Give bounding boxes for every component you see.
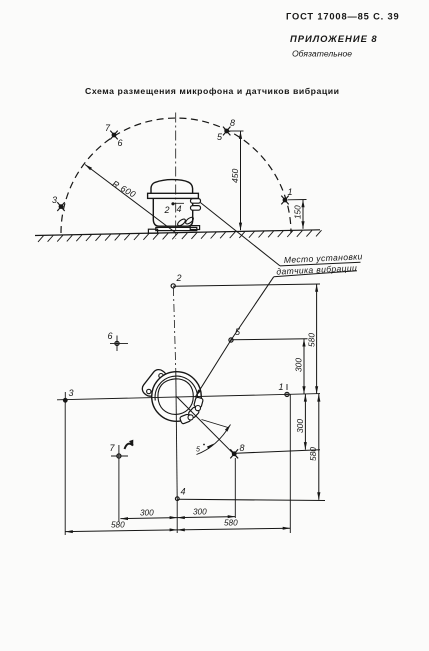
extension line from point 3 down bbox=[64, 404, 66, 536]
plan point 6 bbox=[108, 331, 129, 351]
rotation arc with arrows near point 8, label 5deg bbox=[196, 420, 231, 455]
svg-text:5: 5 bbox=[196, 447, 200, 454]
svg-text:300: 300 bbox=[193, 508, 207, 517]
dimension 450 bbox=[230, 131, 244, 230]
svg-text:300: 300 bbox=[294, 358, 304, 372]
vertical centerline of hemisphere/compressor bbox=[175, 113, 177, 240]
header: ПРИЛОЖЕНИЕ 8 bbox=[290, 33, 378, 44]
compressor center mark, labels 2 and 4 bbox=[164, 202, 185, 215]
svg-text:1: 1 bbox=[288, 187, 293, 197]
dimension 300 (lower right inner) bbox=[295, 394, 307, 450]
compressor plan: inner shell outline bbox=[158, 379, 193, 415]
plan point 4 bbox=[175, 487, 325, 501]
svg-text:4: 4 bbox=[177, 204, 182, 214]
ground line with hatching bbox=[35, 230, 322, 242]
dimension 150 bbox=[288, 200, 307, 229]
plan point 7 with rotation arrow bbox=[110, 440, 134, 467]
svg-text:580: 580 bbox=[308, 447, 318, 461]
plan point 3 bbox=[63, 388, 74, 404]
plan point 5 bbox=[229, 327, 308, 342]
plan horizontal centerline bbox=[57, 394, 320, 400]
mic points 8/5 (upper-right, on arc) bbox=[217, 118, 235, 142]
compressor discharge tubes (right side) bbox=[191, 199, 201, 211]
plan point 2 bbox=[171, 273, 320, 288]
plan point 1 bbox=[279, 382, 290, 397]
svg-text:4: 4 bbox=[181, 487, 186, 497]
svg-text:6: 6 bbox=[108, 331, 113, 341]
svg-text:300: 300 bbox=[140, 509, 154, 518]
diagonal from center to point 8 bbox=[177, 397, 239, 459]
svg-text:ПРИЛОЖЕНИЕ 8: ПРИЛОЖЕНИЕ 8 bbox=[290, 33, 378, 44]
hemisphere measurement arc (dashed) bbox=[61, 118, 291, 233]
svg-text:ГОСТ 17008—85 С. 39: ГОСТ 17008—85 С. 39 bbox=[286, 12, 400, 22]
mic point 3 (left, on arc) bbox=[52, 195, 65, 211]
mic points 7/6 (upper-left, on arc) bbox=[105, 123, 123, 148]
plan mounting lug with bolt holes (upper-left) bbox=[140, 367, 169, 399]
leader from discharge tube to callout bbox=[201, 203, 281, 266]
svg-text:6: 6 bbox=[118, 138, 123, 148]
plan fitting tabs (lower-right) bbox=[179, 397, 203, 424]
svg-text:580: 580 bbox=[111, 521, 125, 530]
dimension 580 (bottom right) bbox=[177, 519, 290, 532]
svg-text:3: 3 bbox=[52, 195, 57, 205]
svg-text:Схема размещения микрофона и д: Схема размещения микрофона и датчиков ви… bbox=[85, 86, 340, 96]
long leader from callout to compressor plan (through point 5) bbox=[195, 277, 274, 398]
mic point 1 (right, on arc) bbox=[281, 187, 292, 204]
compressor plan: outer flange circle bbox=[152, 372, 202, 422]
callout: Место установки датчика вибрации bbox=[274, 251, 363, 277]
radius line R 600 with arrow bbox=[85, 165, 176, 234]
compressor plan: flange disc fill bbox=[152, 372, 202, 422]
title bbox=[85, 86, 340, 96]
compressor base ovals bbox=[177, 216, 195, 227]
svg-text:Обязательное: Обязательное bbox=[292, 49, 352, 59]
header: ГОСТ number bbox=[286, 12, 400, 22]
compressor body (front view) bbox=[148, 180, 200, 234]
svg-text:2: 2 bbox=[164, 205, 170, 215]
svg-text:300: 300 bbox=[295, 419, 305, 433]
svg-text:450: 450 bbox=[230, 168, 240, 183]
dimension 580 (upper right outer) bbox=[307, 284, 319, 394]
plan vertical centerline bbox=[173, 288, 177, 533]
svg-text:580: 580 bbox=[224, 519, 238, 528]
svg-text:150: 150 bbox=[293, 205, 302, 219]
header: Обязательное bbox=[292, 49, 352, 59]
dimension 580 (lower right outer) bbox=[308, 394, 320, 500]
svg-text:580: 580 bbox=[307, 333, 317, 347]
svg-text:2: 2 bbox=[176, 273, 182, 283]
svg-text:8: 8 bbox=[230, 118, 235, 128]
dimension 580 (bottom left) bbox=[65, 521, 177, 534]
plan point 8 bbox=[230, 443, 320, 518]
svg-text:3: 3 bbox=[69, 388, 74, 398]
dimension 300 (upper right inner) bbox=[294, 339, 306, 394]
dimension 300 (bottom left of center) bbox=[120, 509, 177, 521]
extension line from point 1 down bbox=[289, 394, 291, 533]
svg-text:8: 8 bbox=[240, 443, 245, 453]
extension line from point 7 down bbox=[118, 467, 120, 522]
dimension 300 (bottom right of center) bbox=[177, 508, 235, 520]
svg-text:1: 1 bbox=[279, 382, 284, 392]
